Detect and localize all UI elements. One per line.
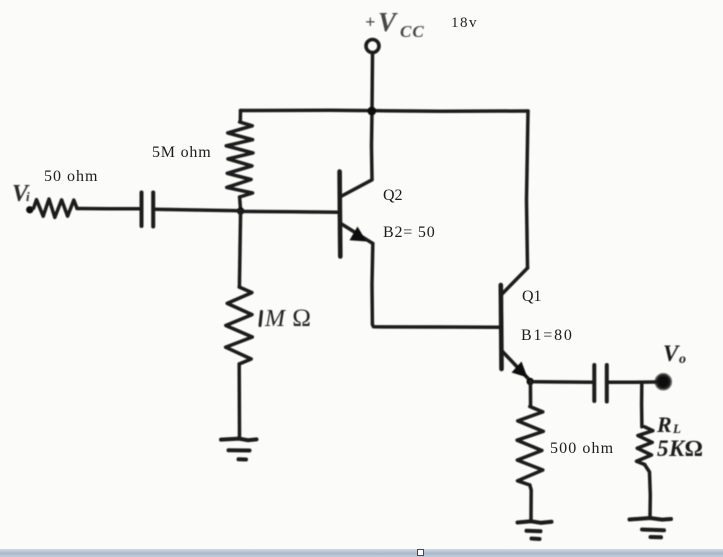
- power terminal +Vcc (open circle): [366, 40, 379, 53]
- wire: base node down to 1M resistor: [239, 211, 240, 287]
- wire: output node to output cap: [535, 380, 594, 384]
- svg-text:o: o: [679, 352, 686, 367]
- svg-text:L: L: [672, 421, 681, 436]
- wire: top rail down to 5M resistor: [239, 111, 243, 123]
- label RL (handwritten): [656, 412, 703, 461]
- wire: 5M resistor bottom to input node: [240, 197, 241, 211]
- transistor Q1 emitter arrowhead: [512, 362, 528, 378]
- capacitor C1 left plate: [140, 193, 144, 227]
- wire: Q2 emitter down and across to Q1 base: [372, 244, 500, 328]
- label Vo (handwritten): [663, 341, 686, 367]
- resistor RL 5K ohm (zigzag): [637, 427, 653, 465]
- svg-text:B2= 50: B2= 50: [383, 224, 436, 241]
- svg-text:50 ohm: 50 ohm: [44, 168, 98, 185]
- svg-text:V: V: [378, 7, 398, 37]
- resistor 500 ohm (zigzag): [517, 407, 543, 486]
- transistor Q2 base bar: [337, 172, 342, 257]
- svg-text:+: +: [365, 12, 375, 32]
- svg-text:5M ohm: 5M ohm: [152, 144, 211, 161]
- transistor Q2 emitter lead: [341, 224, 373, 244]
- svg-text:CC: CC: [400, 22, 425, 41]
- transistor Q1 emitter lead: [503, 352, 531, 381]
- terminal Vo (filled ringed dot): [657, 375, 670, 388]
- resistor R 5M ohm (zigzag): [226, 122, 253, 197]
- wire: Q1 collector up to top rail: [527, 111, 529, 268]
- transistor Q2 emitter arrowhead: [350, 227, 367, 242]
- svg-text:Ω: Ω: [292, 305, 311, 332]
- terminal Vi (input dot): [26, 206, 33, 213]
- ground symbol G2: [518, 521, 552, 523]
- ground symbol G1: [221, 439, 257, 441]
- svg-text:i: i: [26, 189, 30, 204]
- svg-text:18v: 18v: [451, 15, 478, 31]
- resistor 50 ohm (horizontal zigzag): [34, 199, 78, 217]
- wire: cap to Q2 base node: [153, 209, 240, 211]
- capacitor C2 left plate: [592, 365, 596, 401]
- node: top rail junction with Vcc feed: [367, 107, 376, 116]
- wire: 1M resistor to ground: [237, 364, 241, 438]
- resize handle square: [417, 549, 424, 556]
- node: Q1 emitter / output node: [527, 378, 534, 385]
- svg-text:R: R: [656, 412, 672, 437]
- capacitor C1 right plate: [151, 193, 155, 227]
- wire: VCC terminal to Q2 collector (vertical x=372): [372, 54, 373, 180]
- wire: 50 ohm to coupling cap: [77, 207, 140, 211]
- label 1M ohm (handwritten): [260, 312, 262, 326]
- transistor Q2 collector lead: [341, 180, 372, 197]
- svg-text:V: V: [663, 341, 680, 366]
- svg-text:M: M: [264, 306, 287, 332]
- ground symbol G3: [630, 518, 672, 520]
- resistor 1M ohm (zigzag): [226, 287, 253, 364]
- transistor Q1 base bar: [498, 285, 503, 369]
- svg-text:Q1: Q1: [522, 288, 542, 305]
- wire: output node down to 500 ohm resistor: [529, 382, 533, 407]
- node: Q2 base node (junction of 5M, 1M, cap, base): [237, 207, 245, 215]
- wire: top rail from 5M resistor top to Q1 collector corner: [241, 110, 529, 111]
- transistor Q1 collector lead: [503, 268, 528, 294]
- wire: RL to ground: [645, 465, 651, 518]
- label +Vcc (handwritten): [365, 7, 425, 41]
- wire: cap to Vo terminal: [607, 380, 656, 384]
- svg-text:Q2: Q2: [383, 187, 403, 204]
- window bottom edge bar: [0, 549, 723, 557]
- label Vi (handwritten): [12, 181, 30, 207]
- svg-text:500 ohm: 500 ohm: [550, 440, 614, 457]
- capacitor C2 right plate: [605, 365, 609, 402]
- svg-text:5KΩ: 5KΩ: [657, 436, 703, 461]
- wire: base node to Q2 base: [241, 210, 339, 214]
- wire: junction down to RL: [640, 383, 644, 427]
- wire: 500 ohm to ground: [530, 485, 531, 520]
- svg-text:B1=80: B1=80: [521, 327, 574, 344]
